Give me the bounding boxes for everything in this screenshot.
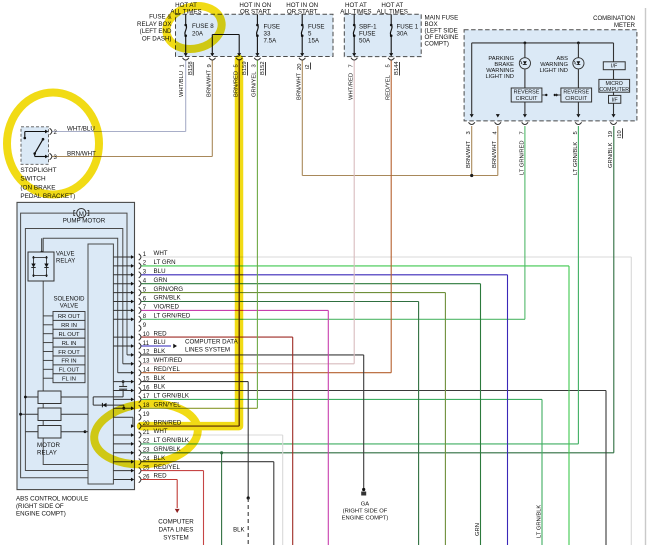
svg-text:STOPLIGHT: STOPLIGHT xyxy=(20,167,56,174)
svg-text:GRN/BLK: GRN/BLK xyxy=(154,295,182,302)
svg-text:RL IN: RL IN xyxy=(62,341,77,347)
svg-text:3: 3 xyxy=(252,64,258,67)
svg-text:GRN/BLK: GRN/BLK xyxy=(608,142,614,168)
svg-text:BLK: BLK xyxy=(154,348,167,355)
svg-text:WHT: WHT xyxy=(154,250,168,257)
svg-text:RED/YEL: RED/YEL xyxy=(386,74,392,100)
svg-text:CIRCUIT: CIRCUIT xyxy=(516,96,539,102)
svg-text:VALVE: VALVE xyxy=(60,304,78,310)
svg-text:GRN/ORG: GRN/ORG xyxy=(154,286,184,293)
svg-text:50A: 50A xyxy=(359,38,371,45)
svg-text:16: 16 xyxy=(143,385,150,391)
svg-text:BLK: BLK xyxy=(154,384,167,391)
svg-text:BLU: BLU xyxy=(154,268,166,275)
svg-text:FL OUT: FL OUT xyxy=(59,368,80,374)
svg-text:COMBINATION: COMBINATION xyxy=(593,16,635,22)
svg-text:22: 22 xyxy=(143,439,150,445)
svg-text:LIGHT IND: LIGHT IND xyxy=(485,74,514,80)
svg-text:REVERSE: REVERSE xyxy=(514,90,540,96)
svg-text:FL IN: FL IN xyxy=(62,377,76,383)
svg-text:15: 15 xyxy=(143,376,150,382)
svg-text:20A: 20A xyxy=(192,31,204,38)
svg-text:RL OUT: RL OUT xyxy=(58,332,80,338)
svg-text:BRN/WHT: BRN/WHT xyxy=(207,69,213,97)
svg-text:VALVE: VALVE xyxy=(56,252,74,258)
svg-text:REVERSE: REVERSE xyxy=(563,90,589,96)
svg-text:GRN/YEL: GRN/YEL xyxy=(251,71,257,97)
svg-text:5: 5 xyxy=(386,64,392,67)
svg-text:17: 17 xyxy=(143,394,150,400)
svg-text:SYSTEM: SYSTEM xyxy=(163,535,188,542)
svg-text:RELAY: RELAY xyxy=(56,259,75,265)
svg-text:ABS CONTROL MODULE: ABS CONTROL MODULE xyxy=(16,496,88,503)
svg-text:RED: RED xyxy=(154,330,168,337)
svg-text:WHT/RED: WHT/RED xyxy=(349,73,355,100)
svg-text:LINES SYSTEM: LINES SYSTEM xyxy=(185,347,230,354)
svg-text:I/F: I/F xyxy=(611,64,618,70)
svg-text:7.5A: 7.5A xyxy=(264,38,278,45)
svg-text:33: 33 xyxy=(264,31,271,38)
svg-text:RR IN: RR IN xyxy=(61,323,77,329)
svg-text:21: 21 xyxy=(143,430,150,436)
svg-text:LT GRN/BLK: LT GRN/BLK xyxy=(154,393,190,400)
svg-text:BRN/WHT: BRN/WHT xyxy=(67,150,96,157)
svg-text:RED: RED xyxy=(154,473,168,480)
svg-text:LT GRN/BLK: LT GRN/BLK xyxy=(154,437,190,444)
svg-text:CIRCUIT: CIRCUIT xyxy=(565,96,588,102)
svg-text:26: 26 xyxy=(143,474,150,480)
svg-text:12: 12 xyxy=(143,350,150,356)
svg-text:(RIGHT SIDE OF: (RIGHT SIDE OF xyxy=(343,509,388,515)
svg-text:ALL TIMES: ALL TIMES xyxy=(340,9,371,16)
svg-text:14: 14 xyxy=(143,368,150,374)
svg-text:LIGHT IND: LIGHT IND xyxy=(539,68,568,74)
svg-text:OR START: OR START xyxy=(240,9,271,16)
svg-text:SOLENOID: SOLENOID xyxy=(53,297,85,303)
svg-text:DATA LINES: DATA LINES xyxy=(159,527,194,534)
svg-text:OR START: OR START xyxy=(287,9,318,16)
svg-text:FUSE 8: FUSE 8 xyxy=(192,23,214,30)
svg-text:VIO/RED: VIO/RED xyxy=(154,304,180,311)
svg-text:15A: 15A xyxy=(308,38,320,45)
svg-text:ALL TIMES: ALL TIMES xyxy=(377,9,408,16)
svg-text:11: 11 xyxy=(143,341,150,347)
svg-text:BRN/WHT: BRN/WHT xyxy=(492,140,498,168)
svg-text:BRN/WHT: BRN/WHT xyxy=(466,140,472,168)
svg-text:20: 20 xyxy=(297,64,303,70)
svg-text:ENGINE COMPT): ENGINE COMPT) xyxy=(16,511,66,518)
svg-text:LT GRN/RED: LT GRN/RED xyxy=(519,140,525,175)
svg-text:BLK: BLK xyxy=(233,528,244,534)
svg-text:WHT/BLU: WHT/BLU xyxy=(179,71,185,97)
svg-text:(RIGHT SIDE OF: (RIGHT SIDE OF xyxy=(16,503,64,510)
svg-text:LT GRN/RED: LT GRN/RED xyxy=(154,313,191,320)
svg-text:FUSE: FUSE xyxy=(359,31,376,38)
svg-text:COMPT): COMPT) xyxy=(425,41,449,48)
svg-text:I/F: I/F xyxy=(611,97,618,103)
svg-text:FUSE: FUSE xyxy=(264,24,281,31)
svg-text:SBF-1: SBF-1 xyxy=(359,24,377,31)
svg-text:5: 5 xyxy=(573,131,579,134)
svg-text:PUMP MOTOR: PUMP MOTOR xyxy=(63,218,106,225)
svg-text:COMPUTER: COMPUTER xyxy=(599,87,629,93)
svg-text:BLK: BLK xyxy=(154,375,167,382)
svg-text:LT GRN: LT GRN xyxy=(154,259,176,266)
svg-text:10: 10 xyxy=(143,332,150,338)
svg-text:LT GRN/BLK: LT GRN/BLK xyxy=(573,142,579,175)
svg-text:19: 19 xyxy=(608,131,614,137)
svg-text:WHT/BLU: WHT/BLU xyxy=(67,125,95,132)
svg-text:LT GRN/BLK: LT GRN/BLK xyxy=(537,505,543,538)
svg-text:3: 3 xyxy=(466,131,472,134)
svg-text:MOTOR: MOTOR xyxy=(37,442,60,449)
svg-text:FR OUT: FR OUT xyxy=(58,350,80,356)
svg-text:BLU: BLU xyxy=(154,339,166,346)
svg-text:ENGINE COMPT): ENGINE COMPT) xyxy=(342,516,389,522)
svg-text:COMPUTER DATA: COMPUTER DATA xyxy=(185,339,239,346)
svg-text:7: 7 xyxy=(349,64,355,67)
svg-text:RELAY: RELAY xyxy=(37,450,57,457)
svg-text:30A: 30A xyxy=(397,31,409,38)
svg-text:RED/YEL: RED/YEL xyxy=(154,366,181,373)
svg-text:FUSE 1: FUSE 1 xyxy=(397,24,419,31)
svg-text:1: 1 xyxy=(179,64,185,67)
svg-text:GRN: GRN xyxy=(475,523,481,536)
svg-text:GRN: GRN xyxy=(154,277,168,284)
svg-text:COMPUTER: COMPUTER xyxy=(158,519,194,526)
svg-text:23: 23 xyxy=(143,448,150,454)
svg-text:9: 9 xyxy=(207,64,213,67)
svg-text:FUSE: FUSE xyxy=(308,24,325,31)
svg-text:13: 13 xyxy=(143,359,150,365)
svg-text:19: 19 xyxy=(143,412,150,418)
svg-text:RR OUT: RR OUT xyxy=(58,314,81,320)
svg-text:BRN/WHT: BRN/WHT xyxy=(297,72,303,100)
svg-text:7: 7 xyxy=(519,131,525,134)
svg-text:5: 5 xyxy=(308,31,312,38)
svg-text:GA: GA xyxy=(361,502,370,508)
svg-text:METER: METER xyxy=(614,23,636,29)
svg-text:MICRO: MICRO xyxy=(606,81,623,87)
svg-text:FR IN: FR IN xyxy=(61,359,76,365)
svg-text:WHT/RED: WHT/RED xyxy=(154,357,183,364)
